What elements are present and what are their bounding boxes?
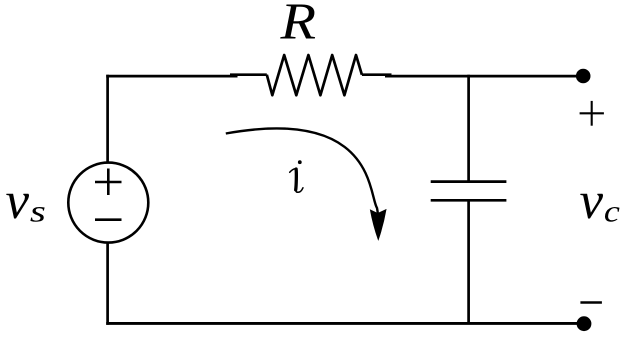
plus polarity label at output <box>580 112 604 114</box>
wire resistor left lead <box>230 73 267 76</box>
capacitor C1 bottom plate <box>431 199 507 202</box>
current arrow arc for i <box>226 128 378 214</box>
wire capacitor vertical lower <box>467 200 470 324</box>
label i dot <box>298 160 302 164</box>
wire left vertical upper <box>106 75 109 163</box>
svg-text:vs: vs <box>6 172 46 230</box>
wire capacitor vertical upper <box>467 75 470 182</box>
voltage source minus mark <box>95 218 122 221</box>
voltage source V1 circle <box>68 163 148 243</box>
svg-text:R: R <box>279 0 316 50</box>
capacitor C1 top plate <box>431 180 507 183</box>
svg-text:vc: vc <box>580 172 621 230</box>
voltage source plus mark <box>95 181 122 184</box>
node terminal bottom dot <box>577 316 592 331</box>
resistor R zigzag <box>267 55 362 95</box>
current arrowhead <box>371 210 386 240</box>
wire top-left horizontal segment <box>106 75 237 78</box>
node terminal top dot <box>576 69 591 84</box>
label i body <box>290 169 296 173</box>
minus polarity label at output <box>580 301 602 303</box>
wire left vertical lower <box>106 243 109 325</box>
wire top-right horizontal segment to terminal <box>385 75 583 78</box>
wire resistor right lead <box>362 73 392 76</box>
wire bottom horizontal <box>106 322 584 325</box>
